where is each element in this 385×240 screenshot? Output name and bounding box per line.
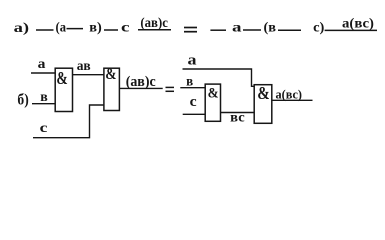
AND gate U4 <box>254 83 272 123</box>
svg-text:(ав)с: (ав)с <box>140 16 168 31</box>
wire <box>278 29 301 31</box>
wire вс <box>221 112 254 114</box>
wire <box>243 29 261 31</box>
svg-text:в): в) <box>89 21 102 36</box>
AND gate U1 <box>55 68 72 112</box>
wire out (ав)с <box>120 87 163 89</box>
svg-text:а): а) <box>14 21 30 36</box>
wire <box>104 29 118 31</box>
equals <box>184 27 197 29</box>
svg-text:ав: ав <box>77 59 91 74</box>
svg-text:с: с <box>40 121 48 136</box>
wire ав <box>73 74 104 76</box>
wire а <box>31 72 55 74</box>
svg-text:(а: (а <box>56 21 67 36</box>
AND gate U3 <box>205 84 220 121</box>
wire <box>67 28 84 30</box>
svg-text:(ав)с: (ав)с <box>126 74 156 90</box>
AND gate U2 <box>104 66 120 111</box>
wire <box>138 29 171 31</box>
svg-text:а: а <box>38 57 46 72</box>
svg-text:с: с <box>121 21 130 36</box>
wire в <box>32 103 55 105</box>
svg-text:а: а <box>232 21 242 36</box>
svg-text:&: & <box>56 68 67 88</box>
wire <box>325 29 377 31</box>
svg-text:&: & <box>257 83 270 103</box>
svg-text:с: с <box>190 94 198 110</box>
svg-text:а: а <box>188 52 198 68</box>
svg-text:&: & <box>208 86 219 102</box>
equals <box>166 86 175 88</box>
svg-text:с): с) <box>313 21 325 36</box>
svg-text:&: & <box>105 66 116 83</box>
svg-text:б): б) <box>17 92 28 109</box>
svg-text:в: в <box>40 90 48 105</box>
wire out а(вс) <box>272 99 313 101</box>
svg-text:вс: вс <box>230 111 245 126</box>
wire <box>36 29 54 31</box>
wire с <box>33 105 104 138</box>
wire в <box>180 87 205 89</box>
wire а <box>183 69 255 86</box>
wire <box>210 29 226 31</box>
svg-text:а(вс): а(вс) <box>342 16 374 31</box>
wire с <box>183 113 205 115</box>
svg-text:а(вс): а(вс) <box>276 88 303 102</box>
svg-text:(в: (в <box>264 21 277 36</box>
